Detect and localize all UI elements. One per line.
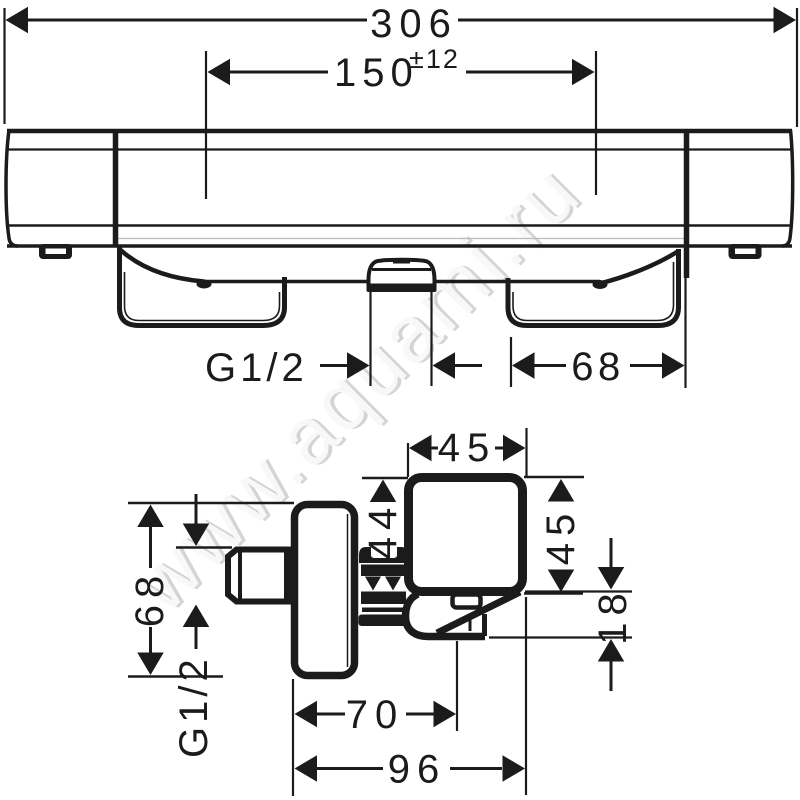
dim 306 line right segment: [458, 19, 775, 22]
dim 68 front arrow right: [662, 352, 685, 379]
body divider left: [113, 131, 119, 246]
dim 96 arrow right: [503, 755, 526, 782]
nipple outline: [228, 550, 292, 602]
dim G1/2 side tick top: [176, 546, 232, 549]
dim 68 front ext right: [684, 278, 686, 388]
dim 150 line right segment: [466, 71, 574, 74]
dim 70 line right: [406, 713, 436, 716]
body inner line lower: [7, 224, 792, 227]
dim 18 tick top: [525, 590, 632, 592]
dim G1/2 side arrow up: [183, 605, 210, 628]
dim 68 side line upper: [149, 526, 152, 568]
dim 45 top ext left: [407, 443, 409, 477]
housing line left: [204, 280, 367, 284]
dim 18 line top: [610, 538, 613, 567]
dim G1/2 front tail left: [320, 364, 350, 367]
valve neck 44 down arrow B: [385, 577, 401, 591]
dim 68 front line right: [630, 364, 663, 367]
body bottom edge: [7, 244, 792, 248]
svg-text:306: 306: [370, 2, 458, 46]
wall disc inner line: [347, 514, 349, 667]
left handle swoosh blob: [197, 280, 212, 289]
valve neck flange top: [359, 547, 408, 563]
dim G1/2 front arrow right: [433, 352, 456, 379]
dim 306 arrow left: [6, 7, 29, 34]
dim 306 arrow right: [774, 7, 797, 34]
svg-text:68: 68: [571, 345, 625, 389]
right handle swoosh blob: [593, 280, 608, 289]
left handle inner line: [125, 272, 280, 321]
dim 68 front arrow left: [512, 352, 535, 379]
svg-text:G1/2: G1/2: [205, 346, 308, 390]
dim 150 ext line right: [595, 51, 597, 195]
dim 45 right tick bottom: [524, 592, 583, 595]
dim 150 arrow left: [208, 59, 231, 86]
dim 18 line bottom: [610, 661, 613, 691]
dim G1/2 front ext left: [369, 292, 371, 386]
dim 96 line right: [450, 767, 502, 770]
dim 68 side tick top: [128, 502, 294, 505]
nipple flange fill: [284, 547, 295, 605]
svg-text:G1/2: G1/2: [172, 655, 216, 758]
left cap tab: [39, 244, 72, 259]
housing line right: [434, 280, 600, 284]
svg-text:70: 70: [346, 693, 405, 737]
dim G1/2 side line top: [195, 494, 198, 525]
valve neck band 1: [361, 565, 406, 577]
dim G1/2 side arrow down: [183, 524, 210, 547]
dim 68 side line lower: [149, 627, 152, 653]
dim G1/2 side line bottom: [195, 626, 198, 649]
dim 68 side arrow up: [137, 505, 164, 528]
body inner line upper: [7, 148, 792, 150]
dim 45 top line left: [428, 447, 438, 450]
body divider right: [684, 131, 690, 278]
dim 150 ext line left: [205, 51, 207, 199]
handle square: [409, 478, 523, 592]
dim 18 tick bottom: [489, 636, 632, 638]
dim 306 ext line left: [3, 8, 5, 124]
dim 68 side tick bottom: [128, 675, 223, 678]
watermark www.aquami.ru: [115, 144, 601, 630]
body faint seam line: [118, 238, 685, 240]
dim 44 tick: [362, 477, 408, 480]
svg-text:150: 150: [334, 51, 419, 95]
dim 44 arrow up: [370, 480, 397, 503]
dim 150 line left segment: [228, 71, 328, 74]
dim 68 side arrow down: [137, 653, 164, 676]
svg-text:68: 68: [128, 569, 172, 628]
dim 70 arrow right: [434, 701, 457, 728]
valve neck 44 down arrow A: [365, 577, 381, 591]
dim 68 front line left: [533, 364, 566, 367]
body left edge: [6, 130, 18, 246]
dim 18 arrow up: [598, 639, 625, 662]
dim 70 line left: [315, 713, 345, 716]
lever tab: [453, 595, 481, 608]
dim 18 arrow down: [598, 567, 625, 590]
dim 70/96 ext left: [292, 679, 294, 796]
right handle inner line: [513, 262, 674, 321]
dim G1/2 front arrow left: [347, 352, 370, 379]
lever tick: [469, 614, 472, 632]
right handle outline: [508, 249, 679, 326]
right cap tab: [729, 244, 762, 259]
valve neck bottom flange: [359, 615, 408, 627]
svg-text:±12: ±12: [409, 44, 460, 74]
dim 150 arrow right: [572, 59, 595, 86]
dim G1/2 front tail right: [454, 364, 482, 367]
dim 45 right arrow up: [548, 479, 575, 502]
dim 96 arrow left: [295, 755, 318, 782]
outlet dome seam: [372, 268, 431, 271]
lever grip: [406, 594, 486, 637]
outlet dome top tick: [393, 262, 410, 264]
dim 45 top arrow left: [409, 435, 432, 462]
svg-text:96: 96: [388, 748, 447, 792]
svg-text:18: 18: [591, 586, 635, 645]
svg-text:45: 45: [438, 426, 497, 470]
dim 70 arrow left: [295, 701, 318, 728]
body right edge: [782, 130, 793, 246]
svg-text:45: 45: [539, 507, 583, 566]
dim 45 top line right: [495, 447, 503, 450]
left handle outline: [120, 247, 285, 326]
dim 45 top ext right: [525, 428, 527, 477]
dim G1/2 front ext right: [430, 292, 432, 386]
dim 96 ext right: [525, 597, 527, 795]
outlet dome outline: [369, 260, 435, 291]
lever diagonal: [437, 592, 520, 633]
right handle swoosh: [600, 251, 679, 284]
dim 45 right tick top: [524, 476, 584, 479]
outlet dome base band: [367, 284, 437, 293]
valve neck band 3: [362, 608, 405, 613]
dim 70 ext right: [456, 641, 458, 731]
dim 306 line left segment: [25, 19, 367, 22]
wall disc: [295, 505, 355, 676]
dim 45 right arrow down: [548, 570, 575, 593]
dim 96 line left: [315, 767, 383, 770]
nipple inner line: [238, 551, 242, 600]
body top edge: [7, 129, 792, 134]
left handle swoosh: [120, 249, 205, 282]
dim 45 top arrow right: [503, 435, 526, 462]
dim 68 front ext left: [510, 337, 512, 387]
lever right edge: [482, 614, 487, 636]
dim 306 ext line right: [796, 8, 798, 127]
valve neck band 2: [361, 592, 406, 605]
